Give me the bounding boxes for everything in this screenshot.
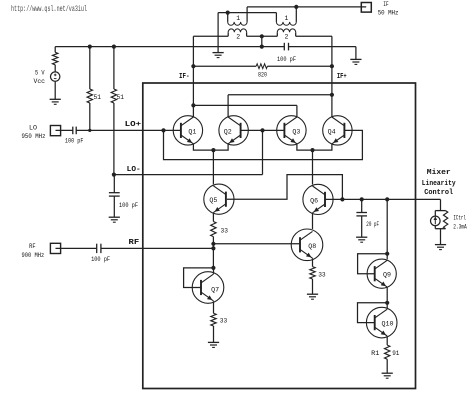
svg-text:100 pF: 100 pF — [65, 137, 84, 144]
svg-text:Q2: Q2 — [224, 128, 232, 135]
svg-text:1: 1 — [236, 15, 240, 22]
svg-text:Mixer: Mixer — [427, 169, 451, 177]
svg-text:2.3mA: 2.3mA — [453, 223, 467, 230]
svg-text:ICtrl: ICtrl — [453, 215, 466, 222]
svg-text:5 V: 5 V — [35, 70, 45, 77]
svg-text:33: 33 — [220, 318, 228, 325]
svg-text:900 MHz: 900 MHz — [22, 252, 45, 259]
svg-text:50 MHz: 50 MHz — [378, 9, 399, 16]
svg-text:Linearity: Linearity — [422, 180, 456, 188]
svg-text:Q10: Q10 — [382, 321, 394, 328]
svg-text:http://www.qsl.net/va3iul: http://www.qsl.net/va3iul — [11, 6, 87, 14]
svg-text:820: 820 — [258, 72, 267, 79]
svg-text:Q1: Q1 — [188, 128, 196, 135]
svg-text:Q8: Q8 — [308, 243, 316, 250]
svg-text:Control: Control — [424, 189, 454, 197]
svg-text:1: 1 — [284, 15, 288, 22]
svg-text:100 pF: 100 pF — [277, 56, 296, 63]
svg-text:IF-: IF- — [179, 73, 190, 81]
svg-text:Q5: Q5 — [209, 197, 217, 204]
svg-text:950 MHz: 950 MHz — [22, 133, 46, 140]
svg-text:Q6: Q6 — [310, 197, 318, 204]
svg-text:Q3: Q3 — [292, 128, 300, 135]
svg-text:33: 33 — [221, 228, 229, 235]
svg-text:51: 51 — [117, 94, 125, 101]
svg-text:33: 33 — [318, 272, 326, 279]
svg-text:100 pF: 100 pF — [91, 256, 110, 263]
svg-text:2: 2 — [284, 33, 288, 40]
svg-text:LO: LO — [29, 124, 37, 131]
svg-text:91: 91 — [392, 350, 399, 357]
svg-text:IF: IF — [383, 1, 389, 8]
svg-text:LO+: LO+ — [125, 121, 142, 129]
svg-text:2: 2 — [236, 33, 240, 40]
svg-text:20 pF: 20 pF — [366, 221, 379, 228]
svg-text:R1: R1 — [371, 350, 379, 357]
svg-text:RF: RF — [29, 243, 36, 250]
svg-text:100 pF: 100 pF — [119, 202, 138, 209]
svg-text:LO-: LO- — [127, 166, 141, 174]
svg-text:Q7: Q7 — [211, 287, 219, 294]
svg-text:51: 51 — [94, 94, 102, 101]
svg-text:Vcc: Vcc — [34, 78, 46, 85]
svg-text:IF+: IF+ — [337, 73, 347, 81]
svg-text:RF: RF — [129, 239, 140, 247]
svg-text:Q9: Q9 — [383, 272, 391, 279]
svg-text:Q4: Q4 — [328, 128, 336, 135]
